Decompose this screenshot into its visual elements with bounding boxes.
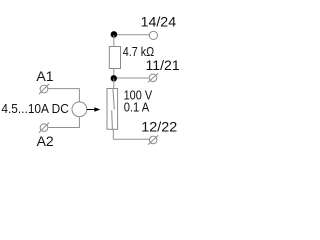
contact blade upper [113,89,114,110]
wire: dot2 to contact top [113,78,115,88]
wire: node 12/22 horizontal [113,138,149,140]
svg-text:12/22: 12/22 [141,119,177,135]
coil input circle [72,102,87,117]
node junction dot bottom [111,75,117,81]
wire: A1 to coil top [48,89,79,102]
wire: resistor bottom to dot2 [113,69,115,79]
contact (reed switch) body [107,89,118,130]
svg-text:14/24: 14/24 [141,14,177,30]
svg-text:A2: A2 [37,133,54,149]
terminal A1 [39,84,49,94]
wire: coil bottom to A2 [48,117,79,128]
contact blade lower [111,111,114,130]
wire: dot1 to resistor top [113,35,115,47]
svg-text:0.1 A: 0.1 A [124,100,150,115]
terminal 14/24 [149,31,157,39]
svg-text:4.5...10A DC: 4.5...10A DC [1,101,69,116]
node junction dot top [111,31,118,38]
terminal 11/21 [148,73,158,82]
wire: node 14/24 horizontal [114,34,150,36]
resistor R 4.7k body [109,47,120,69]
svg-text:A1: A1 [36,68,53,84]
terminal A2 [39,123,49,133]
terminal 12/22 [148,135,158,144]
wire: node 11/21 horizontal [114,77,150,79]
svg-text:11/21: 11/21 [146,57,180,73]
wire: contact bottom down [112,129,114,139]
actuation arrow [87,107,101,111]
